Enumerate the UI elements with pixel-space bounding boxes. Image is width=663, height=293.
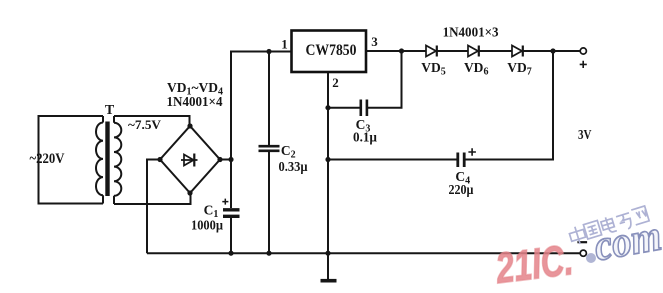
wire rectifier + rail up to regulator input xyxy=(231,52,292,160)
wire secondary top to bridge top xyxy=(114,116,190,126)
svg-text:0.33µ: 0.33µ xyxy=(279,159,308,174)
wire secondary bottom to bridge bottom xyxy=(114,193,191,204)
char zi xyxy=(616,213,633,231)
capacitor C4 plates xyxy=(458,153,464,168)
capacitor C1 plates xyxy=(223,210,240,217)
transformer T primary winding xyxy=(96,116,103,204)
plus output xyxy=(580,61,587,68)
svg-text:~220V: ~220V xyxy=(30,151,65,167)
regulator output wire with diode gaps xyxy=(366,50,580,52)
char guo xyxy=(583,220,601,239)
watermark 21IC. red xyxy=(493,236,576,293)
capacitor C3 plates xyxy=(361,100,367,117)
minus output xyxy=(577,241,587,243)
plus C1 xyxy=(222,199,228,205)
svg-text:1N4001×4: 1N4001×4 xyxy=(167,94,223,109)
diode VD7 xyxy=(512,46,522,57)
svg-text:1: 1 xyxy=(281,37,288,52)
dot of .com xyxy=(586,253,596,263)
svg-text:VD7: VD7 xyxy=(507,60,532,78)
svg-text:3: 3 xyxy=(371,34,378,49)
transformer core xyxy=(105,122,109,197)
svg-text:1000µ: 1000µ xyxy=(191,218,223,233)
char wang xyxy=(631,206,649,225)
svg-text:VD5: VD5 xyxy=(421,60,446,78)
watermark .com xyxy=(586,212,663,270)
svg-text:CW7850: CW7850 xyxy=(306,42,357,59)
plus C4 xyxy=(468,148,476,156)
capacitor C3 wire xyxy=(328,51,402,108)
diode VD5 xyxy=(426,46,436,57)
svg-text:0.1µ: 0.1µ xyxy=(353,130,377,145)
diode VD6 xyxy=(468,46,478,57)
pin 2 vertical line xyxy=(327,72,329,279)
watermark chinese 中国电子网 xyxy=(568,206,650,247)
bottom ground rail xyxy=(147,252,580,254)
wire bridge right corner to node xyxy=(220,159,231,161)
output terminal - xyxy=(580,250,586,256)
capacitor C2 lead and plates xyxy=(268,52,270,254)
svg-text:C2: C2 xyxy=(281,143,296,161)
svg-text:220µ: 220µ xyxy=(449,182,474,197)
char zhong xyxy=(568,225,587,246)
AC source box ~220V xyxy=(39,116,104,204)
svg-text:T: T xyxy=(105,103,115,118)
bridge rectifier VD1~VD4 diamond xyxy=(160,126,220,193)
capacitor C4 wire xyxy=(328,51,553,160)
svg-text:21IC.: 21IC. xyxy=(493,236,576,293)
char dian xyxy=(600,215,617,234)
wire bridge left corner to ground rail xyxy=(147,160,160,254)
svg-text:2: 2 xyxy=(332,75,339,90)
ground bar xyxy=(321,279,337,283)
svg-text:~7.5V: ~7.5V xyxy=(128,117,162,132)
bridge diode symbol xyxy=(184,155,194,166)
capacitor C1 leads xyxy=(230,160,232,254)
svg-text:VD6: VD6 xyxy=(464,60,489,78)
output terminal + xyxy=(580,48,586,54)
CW7850 regulator box U1 xyxy=(292,31,367,73)
svg-text:1N4001×3: 1N4001×3 xyxy=(443,25,499,40)
svg-text:3V: 3V xyxy=(578,128,592,143)
transformer secondary winding xyxy=(114,116,121,204)
